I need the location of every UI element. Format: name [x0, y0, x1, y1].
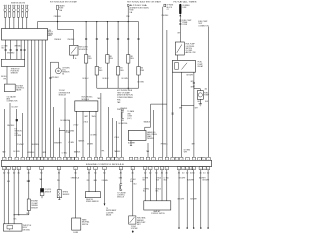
ECM bottom pin [3, 167, 6, 170]
wire below resistor 5 [127, 63, 129, 88]
wire sensor to bus [28, 211, 30, 215]
fuel tank connector [129, 216, 136, 224]
ECM bottom pin [149, 167, 152, 170]
wire tach lead [104, 170, 106, 206]
svg-text:SENSOR: SENSOR [11, 73, 19, 75]
wire to ECM [100, 93, 102, 157]
svg-text:BLK: BLK [156, 191, 159, 193]
ECM top pin [33, 157, 36, 160]
wire DLC to ECM [16, 109, 18, 157]
wire EGR branch [57, 22, 59, 30]
svg-text:RES: RES [110, 58, 113, 60]
wire link down [179, 14, 181, 16]
wire ignition drop 2 [96, 22, 98, 67]
svg-text:GROUND: GROUND [23, 229, 31, 231]
svg-text:PPL: PPL [87, 180, 90, 182]
ECM bottom pin [131, 167, 134, 170]
svg-text:BLK/WHT: BLK/WHT [187, 75, 194, 77]
svg-text:BLK: BLK [7, 181, 10, 183]
wire below resistor 3 [106, 63, 108, 88]
wire gather bus [97, 87, 139, 89]
svg-text:BLK: BLK [143, 179, 146, 181]
wire ignition drop 3 [106, 22, 108, 55]
svg-text:BLU: BLU [134, 184, 137, 186]
svg-text:DK GRN/: DK GRN/ [184, 149, 191, 151]
ECM top pin [129, 157, 132, 160]
svg-text:GRN: GRN [94, 180, 97, 182]
svg-text:RES: RES [99, 70, 102, 72]
svg-text:SENSOR: SENSOR [31, 207, 39, 209]
ECM bottom pin [57, 167, 60, 170]
svg-text:DLC/DIT: DLC/DIT [12, 107, 19, 109]
svg-text:GRN: GRN [119, 177, 122, 179]
svg-text:DK BLU: DK BLU [1, 76, 8, 78]
svg-text:LT BLU: LT BLU [73, 125, 78, 127]
svg-text:PNK/BLK: PNK/BLK [54, 16, 62, 18]
oxygen sensor circle [56, 68, 62, 74]
tick [172, 112, 174, 114]
svg-text:PNK/BLK: PNK/BLK [161, 144, 169, 146]
wire blower control [166, 170, 168, 201]
svg-text:HOT IN RUN, BULB TEST OR START: HOT IN RUN, BULB TEST OR START [127, 1, 161, 4]
ECM bottom pin [40, 167, 43, 170]
svg-text:FUEL PUMP: FUEL PUMP [182, 20, 191, 22]
wire VSS gnd [58, 198, 60, 200]
ECM top pin [15, 157, 18, 160]
connector ticks [96, 37, 98, 39]
wire MAP feed jog [151, 103, 167, 105]
junction [128, 21, 129, 22]
wire blower control [156, 170, 158, 201]
ECM bottom pin [103, 167, 106, 170]
wire to ground box 2 [8, 170, 10, 224]
ECM top pin [180, 157, 183, 160]
svg-text:(DLC): (DLC) [127, 118, 132, 120]
resistor R1 [84, 55, 87, 64]
wire to ECM [9, 103, 11, 157]
svg-text:RELAY: RELAY [198, 65, 204, 68]
svg-text:DK GRN: DK GRN [122, 78, 129, 80]
ECM top pin [202, 157, 205, 160]
wire TAN to ECM [3, 109, 5, 157]
throttle body ground box [3, 224, 22, 231]
fuel injector 4 [17, 5, 20, 17]
svg-text:CONN: CONN [66, 132, 70, 134]
svg-text:BLK: BLK [205, 101, 208, 103]
svg-text:DK GRN/YEL: DK GRN/YEL [119, 123, 128, 125]
svg-text:DK GRN: DK GRN [13, 151, 20, 153]
wire to ground box 3 [13, 170, 15, 224]
wire relay DK GRN/WHT to ECM [180, 72, 182, 157]
wire ground lead [193, 170, 195, 228]
svg-text:BLK: BLK [198, 101, 201, 103]
ECM top pin [175, 157, 178, 160]
ECM top pin [111, 157, 114, 160]
svg-text:TEST: TEST [198, 23, 202, 25]
svg-text:UNIT: UNIT [137, 224, 141, 226]
fuse IGN [127, 4, 129, 6]
svg-text:GRY: GRY [195, 108, 198, 110]
power rail [38, 21, 139, 23]
ECM top pin [81, 157, 84, 160]
ECM top pin [71, 157, 74, 160]
resistor R4 [116, 67, 119, 76]
wire bus down [127, 88, 129, 89]
ECM top pin [140, 157, 143, 160]
svg-text:VALVE: VALVE [16, 89, 22, 92]
fuse GAGES 10A [57, 5, 59, 10]
svg-text:C2: C2 [167, 9, 169, 11]
svg-text:FUEL: FUEL [204, 92, 208, 94]
vehicle speed sensor box [57, 190, 61, 198]
svg-text:CONNECTOR: CONNECTOR [7, 101, 19, 103]
wire O2 to vertical [57, 62, 59, 68]
svg-text:BLK: BLK [156, 179, 159, 181]
svg-text:CONN: CONN [182, 24, 188, 26]
wire blower control [149, 170, 151, 201]
wire ground lead [178, 170, 180, 228]
wire cruise [120, 170, 122, 184]
ECM top pin [198, 157, 201, 160]
svg-text:HOT IN RUN, BULB TEST OR START: HOT IN RUN, BULB TEST OR START [50, 1, 77, 4]
wire EGR down stub [73, 55, 75, 59]
fuel pump [197, 91, 203, 100]
svg-text:FUSE: FUSE [130, 10, 134, 12]
svg-text:BLOCK: BLOCK [167, 7, 173, 9]
junction [118, 21, 119, 22]
ECM bottom pin [119, 167, 122, 170]
svg-text:BLK/WHT: BLK/WHT [179, 177, 186, 179]
wire TPS to IAC [6, 66, 8, 84]
svg-text:RES: RES [120, 70, 123, 72]
svg-text:GRY: GRY [191, 86, 194, 88]
svg-text:PUMP: PUMP [204, 95, 209, 97]
svg-text:PRIME: PRIME [182, 22, 187, 24]
wire MAP ground stub [130, 140, 132, 145]
ECM top pin [40, 157, 43, 160]
wire blower control [161, 170, 163, 201]
svg-text:BLK/WHT: BLK/WHT [190, 199, 197, 201]
svg-text:BLK: BLK [164, 179, 167, 181]
svg-text:INJ: INJ [130, 56, 133, 58]
wire mid to ECM [22, 113, 24, 157]
svg-text:BLK/RED: BLK/RED [32, 144, 40, 146]
wire ignition drop 6 [138, 22, 140, 67]
junction [57, 21, 58, 22]
svg-text:FUEL PUMP: FUEL PUMP [198, 21, 207, 23]
svg-text:WHT: WHT [184, 151, 187, 153]
svg-text:WHT/BLK: WHT/BLK [7, 125, 15, 127]
svg-text:PNK/BLK: PNK/BLK [68, 39, 76, 41]
wire fuse to rail [57, 10, 59, 22]
wire injection box to ECM [45, 40, 47, 157]
idle air control valve box [5, 84, 16, 92]
wires injection box to TPS [5, 40, 7, 59]
wire O2 stub [41, 196, 43, 199]
svg-text:BLK/WHT: BLK/WHT [203, 180, 210, 182]
MAP sensor box [128, 131, 146, 141]
svg-text:MODULE: MODULE [59, 95, 67, 97]
ECM top pin [146, 157, 149, 160]
ECM bottom pin [160, 167, 163, 170]
svg-text:INJECT: INJECT [48, 32, 53, 34]
wire VSS [58, 170, 60, 190]
resistor R2 [95, 67, 98, 76]
wire rail-right vertical [53, 107, 55, 157]
svg-text:CONNECTOR: CONNECTOR [198, 25, 209, 27]
svg-text:RES: RES [88, 58, 91, 60]
svg-text:RES: RES [141, 70, 144, 72]
wire to park/neutral switch [75, 170, 77, 218]
svg-text:INJ: INJ [110, 56, 113, 58]
svg-text:INJ: INJ [99, 68, 102, 70]
svg-text:WHT/BLK: WHT/BLK [15, 45, 23, 47]
fuel pump relay box [172, 60, 195, 72]
svg-text:PPL/WHT: PPL/WHT [52, 77, 59, 79]
vehicle speed sensor 2 box [85, 192, 100, 198]
svg-text:LT BLU: LT BLU [83, 122, 88, 124]
fusible link (thick bar) [179, 4, 181, 14]
ECM top pin [120, 157, 123, 160]
wire to ECM [115, 121, 117, 157]
svg-text:CONTROL SWITCH: CONTROL SWITCH [151, 213, 165, 215]
ECM top pin [165, 157, 168, 160]
oxygen sensor (black) [41, 170, 43, 189]
svg-text:SENSOR: SENSOR [45, 191, 52, 193]
ECM top pin [171, 157, 174, 160]
svg-text:LT GRN: LT GRN [143, 177, 148, 179]
svg-text:SWITCH: SWITCH [82, 224, 89, 226]
ECM top pin [21, 157, 24, 160]
ECM bottom pin [192, 167, 195, 170]
wire injection box to ECM [27, 40, 29, 157]
fuel injector 1 [4, 5, 7, 17]
wire below resistor 4 [117, 75, 119, 88]
ECM top pin [68, 157, 71, 160]
ECM bottom pin [74, 167, 77, 170]
wire IGN fuse to rail [127, 6, 129, 21]
ECM bottom pin [203, 167, 206, 170]
wire injector 5 to ECM box [22, 17, 24, 28]
svg-text:LT BLU/: LT BLU/ [130, 179, 136, 181]
connector ticks [137, 37, 139, 39]
svg-text:INSTRUMENT: INSTRUMENT [106, 210, 116, 212]
ECM bottom pin [27, 167, 30, 170]
wire to ECM [153, 110, 155, 157]
svg-text:BLK: BLK [130, 181, 133, 183]
ECM bottom pin [165, 167, 168, 170]
wire BLK joint [18, 170, 20, 215]
wire injector 4 to ECM box [17, 17, 19, 28]
ECM top pin [49, 157, 52, 160]
connector ticks [106, 37, 108, 39]
svg-text:ENGINE: ENGINE [31, 201, 38, 203]
ECM top pin [58, 157, 61, 160]
svg-text:DK GRN/WHT: DK GRN/WHT [60, 120, 70, 122]
wire injector 2 to ECM box [9, 17, 11, 28]
ECM top pin [26, 157, 29, 160]
svg-text:GRY: GRY [191, 81, 194, 83]
ECM top pin [152, 157, 155, 160]
ECM top pin [186, 157, 189, 160]
wire fuel gauge [132, 170, 134, 216]
svg-text:GRY: GRY [179, 108, 182, 110]
svg-text:DK GRN: DK GRN [102, 180, 108, 182]
EGR control solenoid [70, 45, 78, 55]
svg-text:IGNITION: IGNITION [14, 131, 22, 133]
svg-text:HOT AT ALL TIMES: HOT AT ALL TIMES [174, 0, 198, 3]
wire rail into injection box [37, 22, 39, 29]
svg-text:BLK/WHT: BLK/WHT [178, 199, 185, 201]
ECM top pin [135, 157, 138, 160]
wire relay GRY to pump [193, 72, 195, 88]
svg-text:PPL: PPL [102, 150, 105, 152]
ECM top pin [8, 157, 11, 160]
ECM bottom pin [189, 167, 192, 170]
connector ticks [117, 37, 119, 39]
wire ignition drop 1 [85, 22, 87, 55]
svg-text:LT BLU/: LT BLU/ [156, 189, 162, 191]
fuel injection control box [2, 29, 48, 41]
fuel injector 6 [25, 5, 28, 17]
ECM top pin [207, 157, 210, 160]
svg-text:SENDER: SENDER [137, 220, 144, 222]
wire ground lead [200, 170, 202, 228]
wire to ECM [112, 118, 114, 157]
wire below resistor 1 [85, 63, 87, 101]
heater a/c control box [144, 201, 171, 210]
park neutral switch box [72, 218, 81, 230]
wire below resistor 6 [138, 75, 140, 88]
junction [107, 21, 108, 22]
ECM bottom pin [144, 167, 147, 170]
distributor box [75, 101, 98, 111]
ECM top pin [88, 157, 91, 160]
wire ignition drop 5 [127, 22, 129, 55]
wire injection box to ECM [34, 40, 36, 157]
svg-text:TO CRUISE: TO CRUISE [117, 192, 126, 194]
ECM bottom pin [177, 167, 180, 170]
ECM bottom pin [94, 167, 97, 170]
wire ignition drop 4 [117, 22, 119, 67]
wire injector 1 to ECM box [4, 17, 6, 28]
set timing jumper [58, 131, 60, 158]
svg-text:CLOSED: CLOSED [186, 50, 193, 52]
resistor R5 [127, 55, 130, 64]
wire to ECM [107, 107, 109, 157]
wire settiming left [64, 98, 66, 158]
coolant temp sensor resistor [27, 199, 30, 211]
svg-text:CLUSTER: CLUSTER [106, 212, 114, 214]
wire injection box to ECM [41, 40, 43, 157]
svg-text:DK BLU: DK BLU [103, 78, 110, 80]
ECM top pin [63, 157, 66, 160]
svg-text:ENGINE FUEL INJECTORS: ENGINE FUEL INJECTORS [11, 3, 26, 5]
svg-text:BRN/WHT: BRN/WHT [54, 143, 61, 145]
svg-text:SWITCH: SWITCH [186, 48, 193, 50]
second long wire [166, 30, 168, 157]
ECM bottom pin [186, 167, 189, 170]
svg-text:FUSE: FUSE [59, 8, 63, 10]
cruise connector symbol [120, 184, 122, 191]
resistor R3 [106, 55, 109, 64]
wire ground lead [186, 170, 188, 228]
svg-text:ORN/BLK: ORN/BLK [27, 152, 35, 154]
svg-text:PNK/BLK: PNK/BLK [121, 108, 129, 110]
wire jog to pump [194, 88, 200, 90]
wire relay pin to ECM [172, 72, 174, 157]
ECM bottom pin [206, 167, 209, 170]
svg-text:SYSTEM: SYSTEM [14, 135, 21, 137]
svg-text:FUEL: FUEL [48, 30, 52, 32]
svg-text:OIL PRESS.: OIL PRESS. [186, 46, 195, 48]
svg-text:MODULE: MODULE [117, 197, 124, 199]
ECM top pin [107, 157, 110, 160]
wire injector 3 to ECM box [13, 17, 15, 28]
ECM top pin [115, 157, 118, 160]
svg-text:COIL: COIL [14, 133, 18, 135]
svg-text:CONTROL: CONTROL [117, 195, 125, 197]
junction [86, 21, 87, 22]
svg-text:DK BLU: DK BLU [83, 78, 90, 80]
svg-text:PPL/WHT: PPL/WHT [17, 144, 24, 146]
ECM bottom pin [17, 167, 20, 170]
svg-text:SET TIMING: SET TIMING [66, 130, 75, 132]
ECM top pin [37, 157, 40, 160]
ECM bottom pin [182, 167, 185, 170]
svg-text:LT BLU: LT BLU [164, 177, 169, 179]
splice blob [16, 119, 18, 121]
svg-text:INJ: INJ [88, 56, 91, 58]
svg-text:PNK/BLK: PNK/BLK [54, 39, 62, 41]
svg-text:I/P FUSE: I/P FUSE [167, 5, 174, 7]
svg-text:LT GRN: LT GRN [68, 142, 73, 144]
ECM bottom pin [87, 167, 90, 170]
ECM bottom pin [199, 167, 202, 170]
wire MAP-right to ECM [147, 143, 149, 157]
wire below resistor 2 [96, 75, 98, 88]
svg-text:PPL: PPL [57, 180, 60, 182]
svg-text:MODULE: MODULE [82, 99, 90, 101]
wires to dist reluctor [88, 170, 90, 192]
svg-text:DK GRN: DK GRN [91, 134, 97, 136]
svg-text:ENGINE CONTROL MODULE: ENGINE CONTROL MODULE [86, 164, 125, 166]
wire coolant sensor [28, 170, 30, 199]
prime connector ticks [179, 19, 181, 21]
wire settiming right [68, 120, 70, 157]
svg-text:GRY: GRY [192, 144, 195, 146]
connector ticks [127, 37, 129, 39]
wire switch to relay [177, 55, 179, 60]
DLC connector symbol [121, 110, 124, 120]
svg-text:B1: B1 [62, 74, 64, 76]
ECM top pin [3, 157, 6, 160]
svg-text:GRY/RED: GRY/RED [7, 53, 15, 55]
ECM top pin [30, 157, 33, 160]
fuel injector 5 [21, 5, 24, 17]
svg-text:(IGNITION SW): (IGNITION SW) [130, 7, 150, 9]
wire GRY branch to ECM [193, 86, 195, 157]
ECM connector strip body [2, 160, 212, 166]
ECM bottom pin [12, 167, 15, 170]
resistor R6 [137, 67, 140, 76]
ECM top pin [99, 157, 102, 160]
junction [96, 21, 97, 22]
ECM top pin [159, 157, 162, 160]
svg-text:INJ: INJ [120, 68, 123, 70]
svg-text:WIRING: WIRING [48, 33, 54, 35]
fuel injector 2 [8, 5, 11, 17]
